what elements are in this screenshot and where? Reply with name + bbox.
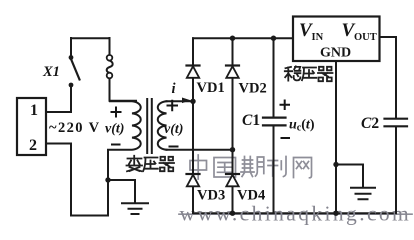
junction bottom rail / GND line [333, 211, 338, 216]
wire C1 branch [273, 38, 275, 213]
label + primary [112, 108, 121, 117]
wire bridge branch 1 (VD1/VD3) [192, 38, 194, 213]
transformer core [147, 99, 152, 153]
switch X1 [70, 38, 72, 56]
current arrow i [182, 98, 191, 104]
diode VD1 [187, 66, 200, 78]
svg-text:v(t): v(t) [164, 122, 183, 137]
网 [294, 158, 312, 178]
wire secondary top to bridge node A [167, 100, 194, 102]
junction top rail / branch2 [230, 36, 235, 41]
稳 [285, 66, 301, 80]
期 [241, 157, 264, 177]
svg-text:2: 2 [29, 137, 37, 154]
watermark strikethrough line [179, 213, 412, 215]
label - C1 [282, 137, 290, 139]
plug box P1 [17, 98, 46, 155]
label - secondary [170, 146, 178, 148]
svg-text:~220 V: ~220 V [49, 120, 101, 136]
压 [302, 68, 316, 81]
svg-text:i: i [172, 81, 176, 97]
svg-text:VD1: VD1 [197, 80, 225, 96]
变 [127, 156, 143, 172]
fuse circles [107, 55, 113, 61]
svg-text:X1: X1 [42, 64, 60, 80]
wire GND to earth [336, 165, 363, 188]
junction node A (secondary top / branch1) [190, 99, 195, 104]
transformer secondary winding [158, 101, 167, 149]
中 [190, 155, 207, 179]
刊 [268, 157, 286, 177]
wire secondary bottom to bridge node B (crosses branch 1) [167, 149, 233, 151]
器 [160, 157, 175, 171]
svg-text:C2: C2 [361, 115, 379, 132]
svg-text:VD3: VD3 [197, 188, 225, 204]
国 [214, 158, 236, 178]
wire top rail bridge to regulator VIN [193, 37, 293, 39]
diode VD2 [226, 66, 239, 78]
wire VOUT to C2 branch [380, 37, 397, 213]
diode VD4 [226, 174, 239, 186]
switch contact dots [69, 55, 74, 60]
svg-text:VD2: VD2 [239, 81, 267, 97]
器 [318, 67, 333, 81]
wire left ground branch [108, 180, 135, 203]
transformer T primary winding [108, 101, 141, 149]
svg-text:IN: IN [312, 32, 324, 43]
top rail switch to fuse [71, 37, 110, 39]
svg-text:VD4: VD4 [237, 188, 265, 204]
watermark 中国期刊网 [190, 155, 312, 179]
svg-text:OUT: OUT [354, 32, 377, 43]
ground symbol left [122, 203, 148, 214]
svg-text:v(t): v(t) [105, 122, 124, 137]
junction left ground [105, 177, 110, 182]
压 [143, 158, 158, 172]
ground symbol right [351, 188, 375, 200]
junction node B (secondary bottom / branch2) [230, 147, 235, 152]
junction GND / earth [333, 162, 338, 167]
svg-text:uc(t): uc(t) [289, 118, 315, 134]
wire bottom rail (bridge minus) [193, 212, 396, 214]
regulator U1 box [293, 17, 380, 62]
wire GND pin down [335, 61, 337, 213]
svg-text:C1: C1 [242, 112, 260, 129]
wire plug pin1 to switch [46, 88, 71, 113]
wire plug pin2 bottom loop [46, 144, 108, 216]
label 变压器 [127, 156, 175, 172]
svg-text:1: 1 [30, 102, 38, 119]
fuse FU [109, 38, 111, 55]
label + C1 [281, 101, 290, 110]
capacitor C1 plates [263, 118, 286, 126]
capacitor C2 plates [385, 119, 408, 127]
junction top rail / C1 [271, 36, 276, 41]
label - primary [112, 144, 120, 146]
wire bridge branch 2 (VD2/VD4) [232, 38, 234, 213]
svg-text:www.chinaqking.com: www.chinaqking.com [180, 202, 412, 226]
label + secondary [168, 101, 178, 110]
junction bottom rail / branch2 [230, 211, 235, 216]
svg-text:GND: GND [320, 45, 351, 60]
label 稳压器 [285, 66, 333, 81]
diode VD3 [187, 174, 200, 186]
